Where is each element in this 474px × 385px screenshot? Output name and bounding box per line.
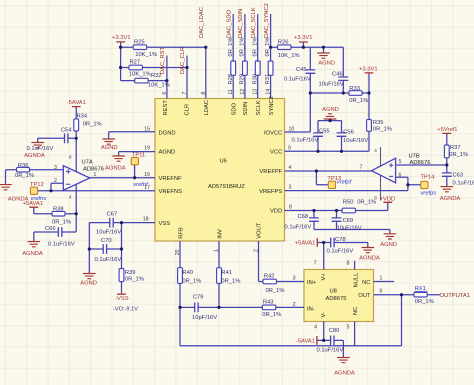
svg-text:5: 5	[399, 159, 402, 165]
svg-text:R34: R34	[77, 114, 88, 120]
svg-text:IN+: IN+	[307, 280, 317, 286]
svg-text:0.1uF/16V: 0.1uF/16V	[317, 348, 344, 354]
svg-text:15: 15	[144, 126, 150, 132]
svg-text:CLR: CLR	[185, 104, 191, 116]
svg-text:10uF/16V: 10uF/16V	[96, 230, 121, 236]
svg-text:0.1uF/16V: 0.1uF/16V	[327, 249, 354, 255]
svg-text:3: 3	[293, 276, 296, 282]
svg-text:vrefns: vrefns	[31, 196, 47, 202]
svg-text:U8: U8	[330, 288, 337, 294]
svg-text:10K_1%: 10K_1%	[135, 52, 157, 58]
svg-text:4: 4	[314, 325, 317, 331]
svg-text:17: 17	[144, 185, 150, 191]
svg-text:AGNDA: AGNDA	[24, 153, 45, 159]
svg-text:0R_1%: 0R_1%	[357, 200, 376, 206]
svg-text:6: 6	[380, 289, 383, 295]
svg-text:1: 1	[380, 276, 383, 282]
svg-text:R38: R38	[53, 207, 64, 213]
svg-text:0R_1%: 0R_1%	[125, 276, 144, 282]
svg-text:0R_1%: 0R_1%	[15, 173, 34, 179]
svg-text:0R_1%: 0R_1%	[449, 152, 468, 158]
svg-text:VREFNS: VREFNS	[159, 189, 183, 195]
svg-text:SDO: SDO	[231, 102, 237, 115]
svg-text:DAC_CLR: DAC_CLR	[180, 47, 186, 74]
svg-text:C46: C46	[332, 72, 343, 78]
svg-text:C69: C69	[343, 218, 354, 224]
svg-text:10: 10	[289, 126, 295, 132]
svg-text:R25: R25	[134, 39, 145, 45]
svg-text:+VDD: +VDD	[380, 196, 396, 202]
svg-text:10uF/16V: 10uF/16V	[319, 82, 344, 88]
svg-text:C66: C66	[45, 226, 56, 232]
svg-text:R43: R43	[263, 299, 274, 305]
svg-text:R33: R33	[349, 86, 360, 92]
svg-text:+3.3V1: +3.3V1	[112, 35, 131, 41]
svg-text:0.1uF/16V: 0.1uF/16V	[95, 257, 122, 263]
svg-text:0.1uF/16V: 0.1uF/16V	[284, 77, 311, 83]
svg-text:0R_1%: 0R_1%	[83, 122, 102, 128]
svg-text:AGND: AGND	[80, 281, 97, 287]
svg-text:DAC_SCLK: DAC_SCLK	[251, 7, 257, 38]
svg-text:AGND: AGND	[159, 150, 176, 156]
svg-text:U7A: U7A	[82, 160, 93, 166]
svg-text:3: 3	[54, 165, 57, 171]
svg-text:DGND: DGND	[159, 130, 176, 136]
svg-text:3: 3	[289, 184, 292, 190]
svg-text:C70: C70	[101, 238, 112, 244]
svg-text:10uF/16V: 10uF/16V	[343, 138, 368, 144]
svg-text:+5AVA1: +5AVA1	[295, 241, 316, 247]
svg-text:0.1uF/16V: 0.1uF/16V	[27, 146, 54, 152]
svg-text:VREFPF: VREFPF	[259, 169, 282, 175]
svg-text:AGND: AGND	[322, 107, 339, 113]
svg-text:R29: R29	[240, 74, 246, 85]
svg-text:U6: U6	[220, 159, 227, 165]
svg-text:6: 6	[399, 172, 402, 178]
svg-text:7: 7	[182, 92, 188, 95]
svg-text:19: 19	[144, 145, 150, 151]
svg-text:V-: V-	[321, 312, 327, 318]
svg-text:IOVCC: IOVCC	[264, 130, 282, 136]
svg-text:AGNDA: AGNDA	[8, 197, 29, 203]
svg-text:DAC_RST: DAC_RST	[160, 46, 166, 74]
svg-text:14: 14	[266, 89, 272, 95]
svg-text:R27: R27	[130, 60, 141, 66]
svg-text:8: 8	[69, 155, 72, 160]
svg-text:U7B: U7B	[409, 154, 420, 160]
svg-text:C80: C80	[329, 328, 340, 334]
svg-text:12: 12	[240, 89, 246, 95]
svg-text:VDD: VDD	[270, 209, 282, 215]
svg-text:8: 8	[289, 204, 292, 210]
svg-text:C79: C79	[193, 294, 204, 300]
svg-text:0R_1%: 0R_1%	[52, 219, 71, 225]
svg-text:2: 2	[293, 302, 296, 308]
svg-text:10K_1%: 10K_1%	[148, 83, 170, 89]
svg-text:8: 8	[347, 261, 350, 267]
svg-text:IN-: IN-	[307, 306, 315, 312]
svg-text:2: 2	[54, 178, 57, 184]
svg-text:0.1uF/16V: 0.1uF/16V	[453, 180, 474, 186]
svg-text:VCC: VCC	[270, 150, 282, 156]
svg-text:8: 8	[201, 92, 207, 95]
svg-text:AGND: AGND	[318, 61, 335, 67]
svg-text:C54: C54	[61, 127, 72, 133]
svg-text:AD8676: AD8676	[410, 160, 431, 166]
svg-text:C67: C67	[107, 212, 118, 218]
svg-text:R37: R37	[450, 145, 461, 151]
svg-text:RFB: RFB	[178, 227, 184, 239]
svg-text:4: 4	[69, 195, 72, 200]
svg-text:C63: C63	[453, 173, 464, 179]
svg-text:C55: C55	[319, 128, 330, 134]
svg-text:SDIN: SDIN	[243, 102, 249, 116]
svg-text:R50: R50	[343, 200, 354, 206]
svg-text:NULL: NULL	[354, 272, 360, 288]
svg-text:0R_1%: 0R_1%	[252, 37, 258, 56]
svg-text:RX1: RX1	[415, 286, 426, 292]
svg-text:DAC_SDO: DAC_SDO	[226, 9, 232, 38]
svg-text:VREFNF: VREFNF	[159, 176, 183, 182]
svg-text:vrefpf: vrefpf	[337, 180, 353, 186]
svg-text:AD5791BRUZ: AD5791BRUZ	[208, 184, 245, 190]
svg-text:OUT: OUT	[358, 293, 371, 299]
svg-text:-VSS: -VSS	[115, 296, 129, 302]
svg-text:-5AVA1: -5AVA1	[67, 100, 86, 106]
svg-text:DAC_SDIN: DAC_SDIN	[238, 9, 244, 38]
svg-text:AGND: AGND	[101, 145, 118, 151]
svg-text:0R_1%: 0R_1%	[349, 98, 368, 104]
svg-text:20: 20	[175, 249, 181, 255]
svg-text:18: 18	[143, 217, 149, 223]
svg-text:C45: C45	[296, 67, 307, 73]
svg-text:AGNDA: AGNDA	[440, 196, 461, 202]
svg-text:6: 6	[162, 92, 168, 95]
svg-text:R35: R35	[373, 120, 384, 126]
svg-text:V+: V+	[321, 273, 327, 281]
svg-text:C68: C68	[298, 214, 309, 220]
svg-text:REST: REST	[163, 100, 169, 116]
svg-text:R28: R28	[228, 74, 234, 85]
svg-text:R31: R31	[265, 74, 271, 85]
svg-text:5: 5	[347, 325, 350, 331]
svg-text:R26: R26	[278, 39, 289, 45]
svg-text:AGNDA: AGNDA	[359, 256, 380, 262]
svg-text:AGNDA: AGNDA	[22, 251, 43, 257]
svg-text:R42: R42	[264, 274, 275, 280]
svg-text:TP12: TP12	[30, 182, 44, 188]
svg-text:-VO:-9.1V: -VO:-9.1V	[113, 307, 138, 313]
svg-text:AD8675: AD8675	[326, 296, 347, 302]
svg-text:2: 2	[254, 249, 260, 252]
svg-text:C56: C56	[343, 130, 354, 136]
svg-text:7: 7	[360, 164, 363, 170]
svg-text:AGNDA: AGNDA	[334, 371, 355, 377]
svg-text:R41: R41	[221, 270, 232, 276]
svg-text:8: 8	[374, 196, 377, 201]
svg-text:LDAC: LDAC	[204, 100, 210, 115]
svg-text:7: 7	[314, 261, 317, 267]
svg-text:0R_1%: 0R_1%	[228, 37, 234, 56]
svg-text:-5AVA1: -5AVA1	[296, 339, 315, 345]
svg-text:DAC_SYNC2: DAC_SYNC2	[264, 3, 270, 38]
svg-text:SYNC2: SYNC2	[269, 96, 275, 115]
svg-text:10pF/16V: 10pF/16V	[192, 315, 217, 321]
svg-text:0.1uF/16V: 0.1uF/16V	[292, 138, 319, 144]
svg-text:0R_1%: 0R_1%	[373, 126, 392, 132]
svg-text:R30: R30	[252, 74, 258, 85]
svg-text:TP11: TP11	[132, 152, 145, 158]
svg-text:+3.3V1: +3.3V1	[359, 67, 378, 73]
svg-text:10K_1%: 10K_1%	[129, 72, 151, 78]
svg-text:10uF/16V: 10uF/16V	[337, 225, 362, 231]
svg-text:4: 4	[374, 148, 377, 153]
svg-text:10K_1%: 10K_1%	[278, 53, 300, 59]
svg-text:R36: R36	[18, 163, 29, 169]
svg-text:vrefps: vrefps	[420, 191, 436, 197]
svg-text:0R_1%: 0R_1%	[240, 37, 246, 56]
svg-text:R39: R39	[125, 270, 136, 276]
svg-text:0.1uF/16V: 0.1uF/16V	[285, 224, 312, 230]
svg-text:OUTPUTA1: OUTPUTA1	[440, 293, 471, 299]
svg-text:SCLK: SCLK	[256, 100, 262, 115]
svg-text:1: 1	[94, 172, 97, 178]
svg-text:0R_1%: 0R_1%	[182, 278, 201, 284]
svg-text:16: 16	[144, 172, 150, 178]
svg-text:NC: NC	[362, 280, 370, 286]
svg-text:0R_1%: 0R_1%	[262, 312, 281, 318]
svg-text:AGNDA: AGNDA	[105, 165, 126, 171]
svg-text:1: 1	[214, 249, 220, 252]
svg-text:9: 9	[288, 145, 291, 151]
svg-text:AGND: AGND	[380, 242, 397, 248]
svg-text:TP14: TP14	[420, 175, 435, 181]
svg-text:VSS: VSS	[159, 221, 171, 227]
svg-text:+3.3V1: +3.3V1	[294, 35, 313, 41]
svg-text:0R_1%: 0R_1%	[266, 288, 285, 294]
svg-text:INV: INV	[217, 229, 223, 239]
svg-text:R40: R40	[182, 270, 193, 276]
svg-text:0.1uF/16V: 0.1uF/16V	[48, 241, 75, 247]
svg-text:11: 11	[228, 89, 234, 94]
svg-text:NC: NC	[353, 307, 359, 315]
svg-text:0R_1%: 0R_1%	[415, 299, 434, 305]
svg-text:0R_1%: 0R_1%	[221, 278, 240, 284]
svg-text:VREFPS: VREFPS	[259, 189, 282, 195]
svg-text:+5Vref1: +5Vref1	[437, 127, 457, 133]
svg-text:DAC_LDAC: DAC_LDAC	[199, 7, 205, 38]
svg-text:13: 13	[253, 89, 259, 95]
svg-text:0R_1%: 0R_1%	[265, 37, 271, 56]
svg-text:VOUT: VOUT	[257, 222, 263, 239]
svg-text:4: 4	[289, 165, 292, 171]
svg-text:C78: C78	[335, 237, 346, 243]
